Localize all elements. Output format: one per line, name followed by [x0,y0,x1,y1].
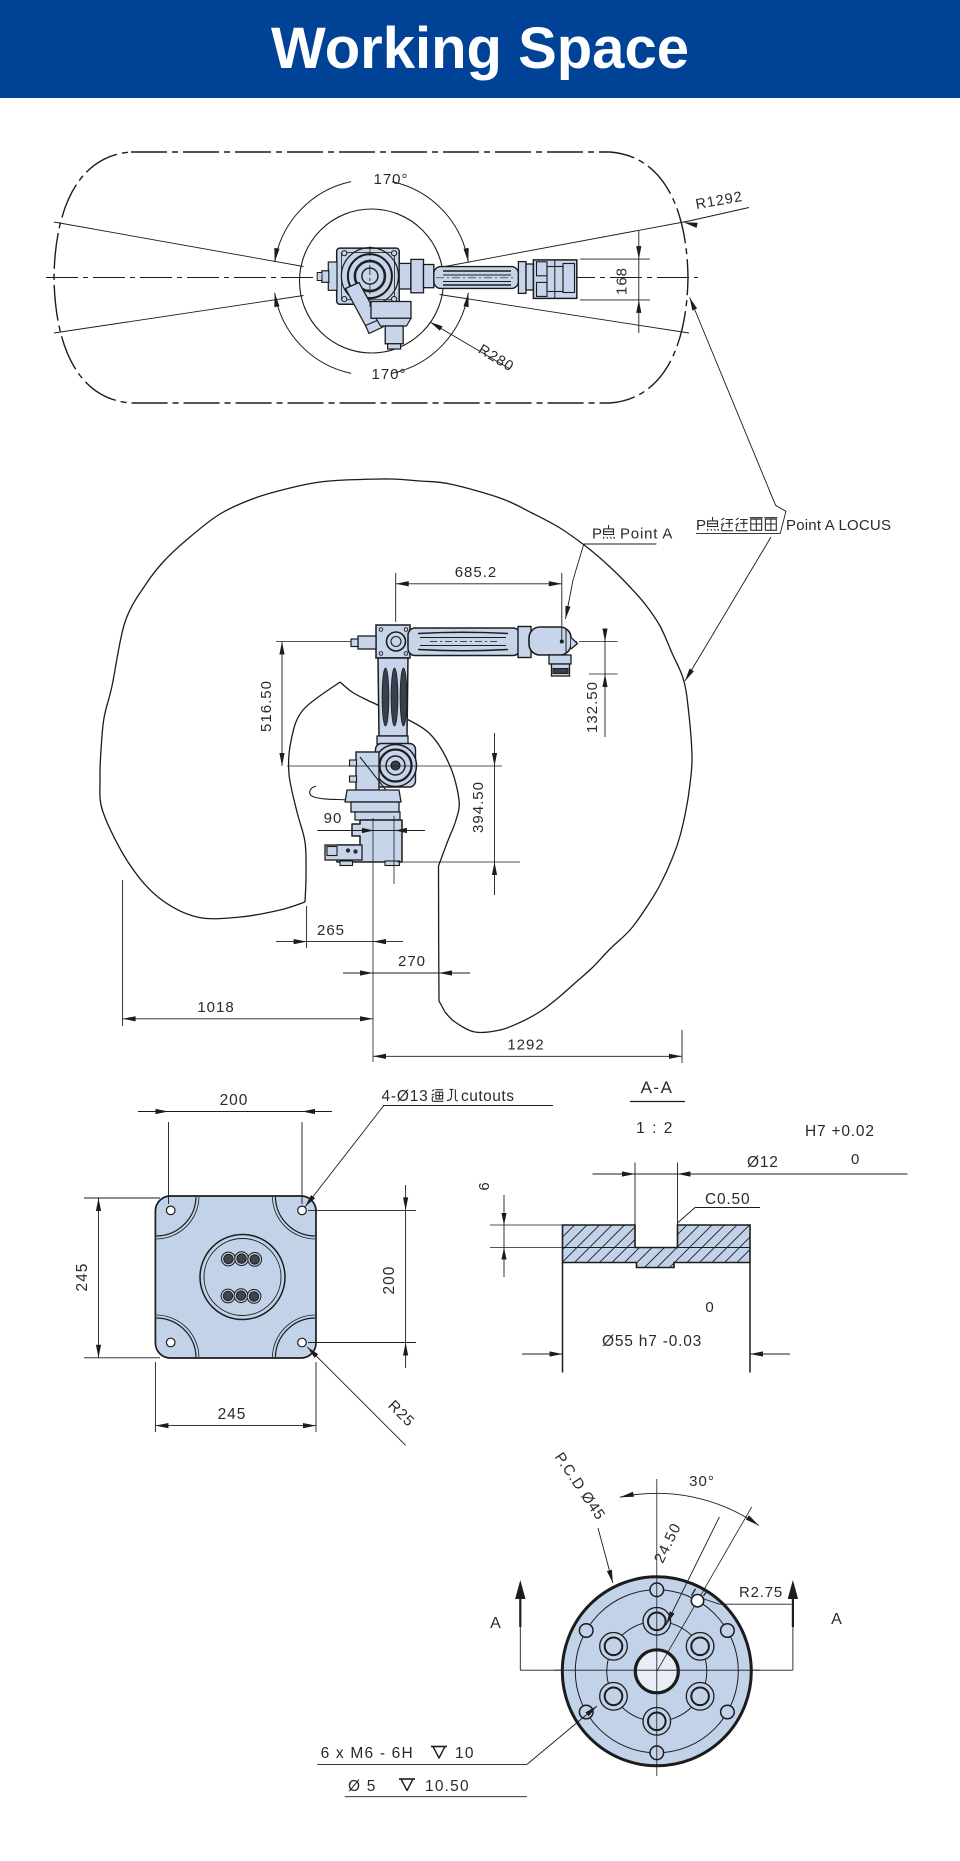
side view: envelope inner-left branch [289,682,340,902]
side view robot: swivel plates [345,790,401,802]
svg-text:265: 265 [317,922,345,939]
flange: R2.75 notch [691,1595,703,1607]
top view: wedge line upper-left [54,222,304,267]
dimension 685.2 [395,573,397,622]
P point marker [560,640,563,643]
section A-A: hole bottom line [563,1247,751,1249]
top view: 170 deg arc bottom [275,293,351,374]
svg-text:Point A LOCUS: Point A LOCUS [786,517,891,534]
svg-text:R2.75: R2.75 [739,1584,783,1601]
section arrows A-A [519,1592,521,1627]
dimension 132.50 [604,629,606,737]
svg-text:0: 0 [705,1299,714,1316]
top view: 170 deg arc top [392,182,468,263]
svg-text:516.50: 516.50 [258,680,275,732]
top view: wedge line lower-left [54,296,304,334]
flange: M6 tapped holes [643,1608,671,1636]
svg-text:685.2: 685.2 [455,564,498,581]
svg-text:A: A [831,1611,843,1628]
24.50 dimension [666,1517,719,1625]
robot top view: arm link [424,265,434,288]
top view: wedge line lower-right [440,295,690,334]
side view: arm axis line [276,641,577,643]
svg-text:245: 245 [218,1406,247,1423]
svg-text:1 : 2: 1 : 2 [636,1120,674,1137]
svg-text:200: 200 [220,1092,249,1109]
svg-text:132.50: 132.50 [584,681,601,733]
svg-text:Point A: Point A [620,526,673,543]
side view robot: upper arm column [378,658,408,736]
top view: R280 envelope circle [300,209,444,353]
extension line at base bottom [397,861,520,863]
side view robot: shoulder joint [375,745,417,787]
svg-text:6 x M6 - 6H: 6 x M6 - 6H [321,1745,414,1762]
side view robot: elbow block [376,625,410,658]
svg-text:245: 245 [74,1263,91,1292]
robot top view: arm joint block [411,259,424,292]
dimension dia55 [522,1353,563,1355]
side view: envelope bottom notch (straight) [439,866,446,1012]
side view robot: base body [337,820,402,862]
svg-text:A-A: A-A [641,1078,674,1097]
svg-text:170°: 170° [373,171,408,188]
side view robot: wrist ball [529,627,571,655]
svg-text:168: 168 [614,267,631,295]
svg-text:1292: 1292 [507,1037,544,1054]
svg-text:90: 90 [324,810,343,827]
side view robot: base feet [340,861,353,866]
side view: J1 axis centerline [372,818,374,1062]
svg-text:Ø55 h7 -0.03: Ø55 h7 -0.03 [602,1333,702,1350]
svg-text:270: 270 [398,953,426,970]
flange: dia5 holes [650,1583,664,1597]
robot top view: forearm [434,267,519,289]
svg-text:30°: 30° [689,1473,715,1490]
side view robot: wrist block [518,627,531,658]
extension line at shoulder height [287,765,502,767]
dimension 516.50 [281,642,283,767]
dimension 1018 [122,880,124,1026]
flange: outer circle [562,1577,751,1766]
robot top view: lower attachment block [371,302,411,319]
robot top view: end effector [533,260,576,299]
svg-text:394.50: 394.50 [470,781,487,833]
dimension 200 right [308,1209,416,1211]
svg-text:0: 0 [851,1151,860,1168]
svg-text:4-Ø13: 4-Ø13 [382,1088,429,1105]
side view: point-A locus envelope curve [100,479,692,1033]
robot top view: base plate [337,248,400,304]
dimension 265 [306,906,308,948]
robot top view: J1 concentric circles [341,248,398,305]
svg-text:6: 6 [476,1181,493,1190]
svg-text:170°: 170° [371,366,406,383]
base plate: corner pockets [157,1197,197,1236]
svg-text:Ø 5: Ø 5 [348,1778,377,1795]
svg-text:P: P [592,526,603,543]
base plate: bolt holes [222,1252,236,1266]
flange: inner circles [575,1590,738,1753]
svg-text:1018: 1018 [197,999,234,1016]
30 deg angle dimension [620,1493,759,1525]
top view: horizontal centerline [46,277,698,279]
robot top view: left attachment [328,262,337,290]
svg-text:200: 200 [381,1266,398,1295]
side view robot: shoulder bracket [356,752,379,806]
dimension 394.50 [494,733,496,895]
side view robot: shoulder housing [376,744,416,788]
robot top view: lower stub [385,326,403,344]
svg-text:H7 +0.02: H7 +0.02 [805,1123,875,1140]
robot top view: corner screws [342,251,347,256]
side view robot: base left box [325,845,362,860]
section A-A: cylinder below [562,1263,564,1373]
svg-text:Ø12: Ø12 [747,1154,779,1171]
side view robot: cable [310,786,366,802]
svg-text:P: P [696,517,707,534]
base plate: corner holes (4x dia13) [166,1206,175,1215]
svg-text:Working Space: Working Space [271,16,689,81]
svg-text:10.50: 10.50 [425,1778,470,1795]
robot top view: wrist blocks [518,262,526,294]
flange: 60 deg line through notch [657,1507,752,1672]
svg-text:C0.50: C0.50 [705,1191,750,1208]
dimension 245 bottom [154,1362,156,1432]
robot top view: J2 housing diagonal [346,283,381,329]
top view: wedge line upper-right / R1292 radius line [440,221,690,268]
side view robot: elbow left protrusion [358,636,376,649]
flange: center hole [635,1650,678,1693]
side view robot: end effector hanging [549,655,571,664]
svg-text:10: 10 [455,1745,475,1762]
dimension 6 [490,1224,562,1226]
base plate: center boss circles [200,1235,285,1320]
robot top view: arm neck [399,263,411,289]
svg-text:cutouts: cutouts [461,1088,514,1105]
dimension 200 top [168,1122,170,1204]
top view: stadium working envelope (phantom outline) [54,152,688,403]
side view: envelope inner-right branch [340,682,459,866]
dimension 245 left [84,1197,160,1199]
dimension dia12 H7 [634,1163,636,1247]
dimension 270 [343,972,470,974]
label R25 with leader [307,1347,405,1445]
R1292 leader and label [689,208,749,222]
dimension 168 (top view) [580,258,650,260]
base plate: square body [155,1196,316,1358]
side view robot: forearm link [408,628,520,656]
header bar [0,0,960,98]
dimension 1292 [681,1030,683,1063]
flange: centerlines [656,1479,658,1776]
R280 leader and label [430,322,510,369]
top view: J1 vertical centerline [369,246,371,307]
svg-text:A: A [490,1615,502,1632]
